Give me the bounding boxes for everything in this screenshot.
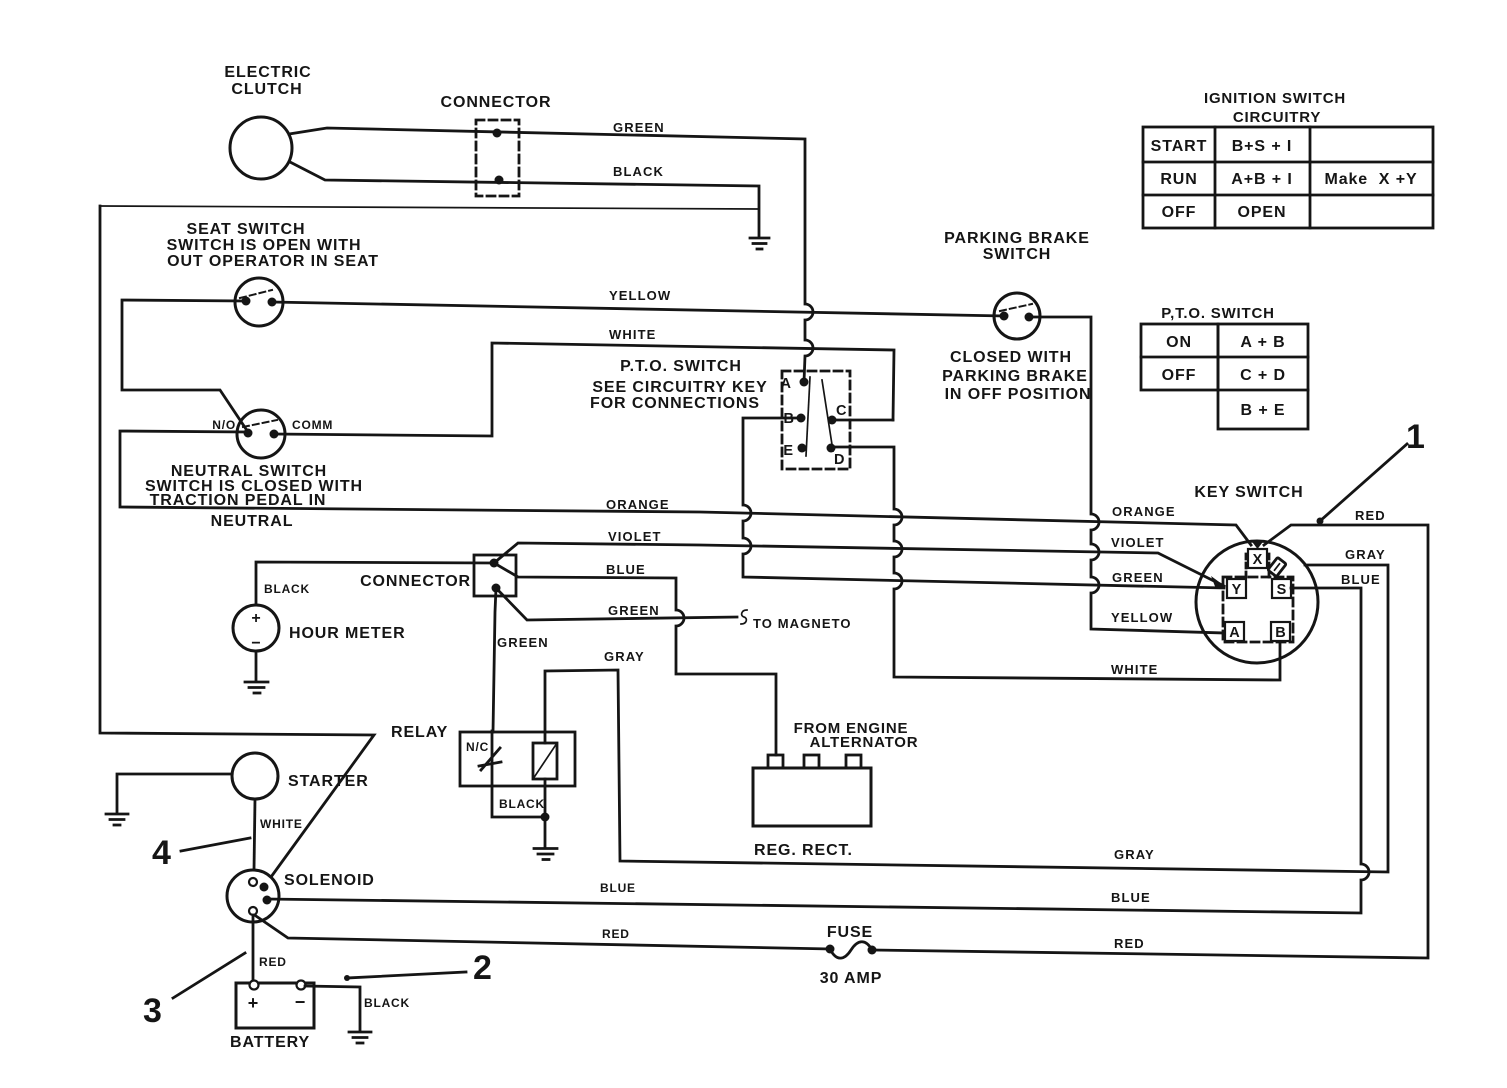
arrowhead above X xyxy=(1252,541,1264,549)
svg-text:ON: ON xyxy=(1166,334,1192,351)
fuse F1 30 AMP xyxy=(820,924,883,987)
ground (clutch black) xyxy=(750,238,769,249)
wire ORANGE from N/O of neutral switch to key switch X xyxy=(120,431,1251,545)
wire hour meter to connector xyxy=(256,562,494,605)
ground (relay) xyxy=(534,849,557,860)
starter xyxy=(232,753,369,799)
svg-text:3: 3 xyxy=(143,992,162,1030)
svg-text:+: + xyxy=(251,610,260,627)
svg-text:WHITE: WHITE xyxy=(609,327,656,342)
wire battery negative to ground xyxy=(305,986,360,1031)
svg-text:2: 2 xyxy=(473,949,492,987)
wire WHITE from COMM up and right to PTO C xyxy=(274,343,894,436)
svg-text:IGNITION SWITCH: IGNITION SWITCH xyxy=(1204,90,1346,107)
svg-text:N/O: N/O xyxy=(212,418,236,432)
connector (mid, solid) xyxy=(360,555,516,596)
svg-text:YELLOW: YELLOW xyxy=(609,288,671,303)
svg-text:COMM: COMM xyxy=(292,418,333,432)
hour meter xyxy=(233,582,406,652)
svg-text:CONNECTOR: CONNECTOR xyxy=(360,573,471,590)
svg-text:N/C: N/C xyxy=(466,740,489,754)
wire YELLOW parking brake down to key switch A xyxy=(1029,317,1225,633)
wire WHITE from PTO D to key switch B xyxy=(831,447,1280,680)
svg-text:BLUE: BLUE xyxy=(600,881,636,895)
callout 1 xyxy=(1317,418,1425,525)
wire YELLOW seat switch to parking brake xyxy=(272,302,1004,316)
svg-text:WHITE: WHITE xyxy=(260,817,303,831)
svg-text:A: A xyxy=(1229,625,1240,641)
svg-text:WHITE: WHITE xyxy=(1111,662,1158,677)
wire GREEN from clutch to connector and PTO terminal A xyxy=(289,128,813,382)
svg-text:RED: RED xyxy=(1355,508,1386,523)
svg-text:ORANGE: ORANGE xyxy=(606,497,670,512)
svg-text:RED: RED xyxy=(1114,936,1145,951)
callout 2 xyxy=(344,949,492,987)
ground (starter) xyxy=(106,814,128,825)
svg-text:P,T.O. SWITCH: P,T.O. SWITCH xyxy=(1161,305,1274,322)
svg-text:NEUTRAL: NEUTRAL xyxy=(211,513,294,530)
svg-text:C: C xyxy=(836,403,847,419)
svg-text:CIRCUITRY: CIRCUITRY xyxy=(1233,109,1321,126)
junction relay ground xyxy=(541,813,550,822)
svg-text:B: B xyxy=(784,411,794,427)
ground (battery) xyxy=(349,1032,371,1043)
wire WHITE starter to solenoid xyxy=(254,799,255,870)
wire relay to ground xyxy=(492,779,545,847)
svg-text:STARTER: STARTER xyxy=(288,773,369,790)
wire solenoid to battery xyxy=(252,915,255,983)
svg-text:−: − xyxy=(251,635,260,652)
svg-text:Make X +Y: Make X +Y xyxy=(1324,171,1417,188)
svg-text:A: A xyxy=(781,376,792,392)
ignition switch circuitry table xyxy=(1143,90,1433,228)
p.t.o. switch table xyxy=(1141,305,1308,429)
violet arrowhead at Y xyxy=(1211,576,1226,589)
svg-text:P.T.O. SWITCH: P.T.O. SWITCH xyxy=(620,358,742,375)
seat switch xyxy=(167,221,379,326)
solenoid xyxy=(227,870,375,922)
svg-text:VIOLET: VIOLET xyxy=(608,529,662,544)
svg-text:FOR CONNECTIONS: FOR CONNECTIONS xyxy=(590,395,760,412)
magneto break squiggle xyxy=(741,610,747,624)
svg-text:START: START xyxy=(1151,138,1208,155)
wire GREEN connector to magneto xyxy=(496,588,737,620)
electric clutch xyxy=(224,64,311,179)
reg. rect. (regulator rectifier) xyxy=(753,720,918,859)
svg-text:BLUE: BLUE xyxy=(606,562,646,577)
svg-text:BATTERY: BATTERY xyxy=(230,1034,310,1051)
svg-text:GREEN: GREEN xyxy=(608,603,660,618)
callout 4 xyxy=(152,834,250,872)
svg-text:KEY SWITCH: KEY SWITCH xyxy=(1194,484,1303,501)
svg-text:A+B + I: A+B + I xyxy=(1231,171,1292,188)
svg-text:PARKING BRAKE: PARKING BRAKE xyxy=(942,368,1088,385)
svg-text:ELECTRIC: ELECTRIC xyxy=(224,64,311,81)
connector (dashed, top) xyxy=(441,94,552,196)
relay xyxy=(391,724,575,786)
svg-text:OFF: OFF xyxy=(1162,204,1197,221)
svg-text:CONNECTOR: CONNECTOR xyxy=(441,94,552,111)
svg-text:BLUE: BLUE xyxy=(1111,890,1151,905)
svg-text:RED: RED xyxy=(259,955,287,969)
wire RED solenoid to fuse xyxy=(256,916,830,949)
wire RED key switch to fuse (right loop) xyxy=(874,525,1428,958)
svg-text:GREEN: GREEN xyxy=(613,120,665,135)
svg-text:BLACK: BLACK xyxy=(364,996,410,1010)
svg-text:VIOLET: VIOLET xyxy=(1111,535,1165,550)
svg-text:RELAY: RELAY xyxy=(391,724,448,741)
wire starter to ground xyxy=(117,774,232,813)
svg-text:1: 1 xyxy=(1406,418,1425,456)
svg-text:ALTERNATOR: ALTERNATOR xyxy=(810,734,919,751)
wire PTO C stub xyxy=(832,419,893,422)
svg-text:A + B: A + B xyxy=(1240,334,1285,351)
svg-text:OUT OPERATOR IN SEAT: OUT OPERATOR IN SEAT xyxy=(167,253,379,270)
svg-text:ORANGE: ORANGE xyxy=(1112,504,1176,519)
wire GRAY relay coil to key switch (long run) xyxy=(545,565,1388,872)
svg-text:X: X xyxy=(1253,552,1263,568)
svg-text:CLUTCH: CLUTCH xyxy=(231,81,302,98)
wire GREEN connector down to relay N/C xyxy=(493,588,496,732)
P.T.O. switch (dashed box) xyxy=(590,358,850,469)
svg-text:D: D xyxy=(834,452,844,468)
svg-text:BLACK: BLACK xyxy=(499,797,545,811)
svg-text:RUN: RUN xyxy=(1160,171,1197,188)
wire BLACK from clutch to ground xyxy=(290,162,759,237)
svg-text:TO MAGNETO: TO MAGNETO xyxy=(753,616,852,631)
key switch xyxy=(1194,484,1318,663)
neutral switch xyxy=(145,410,363,530)
svg-text:SEE CIRCUITRY KEY: SEE CIRCUITRY KEY xyxy=(592,379,767,396)
svg-text:RED: RED xyxy=(602,927,630,941)
key glyph xyxy=(1268,557,1287,576)
svg-text:S: S xyxy=(1277,582,1287,598)
svg-text:CLOSED WITH: CLOSED WITH xyxy=(950,349,1072,366)
svg-text:30 AMP: 30 AMP xyxy=(820,970,883,987)
svg-text:SWITCH: SWITCH xyxy=(983,246,1052,263)
ground (hour meter) xyxy=(245,651,268,693)
svg-text:SEAT SWITCH: SEAT SWITCH xyxy=(187,221,306,238)
wire VIOLET connector to key switch Y xyxy=(494,543,1224,586)
svg-text:Y: Y xyxy=(1232,582,1242,598)
svg-text:HOUR METER: HOUR METER xyxy=(289,625,406,642)
battery xyxy=(230,981,314,1052)
callout 3 xyxy=(143,953,245,1030)
wire from PTO B left and down to GREEN row xyxy=(743,418,1224,588)
parking brake switch xyxy=(942,230,1091,403)
svg-text:GRAY: GRAY xyxy=(1345,547,1386,562)
svg-text:SWITCH IS OPEN WITH: SWITCH IS OPEN WITH xyxy=(167,237,362,254)
wire BLUE connector to REG.RECT. xyxy=(494,563,776,755)
svg-text:OPEN: OPEN xyxy=(1238,204,1287,221)
svg-text:IN OFF POSITION: IN OFF POSITION xyxy=(945,386,1092,403)
wire chassis left box to solenoid xyxy=(100,206,374,877)
svg-text:GRAY: GRAY xyxy=(604,649,645,664)
svg-text:GREEN: GREEN xyxy=(1112,570,1164,585)
svg-text:B + E: B + E xyxy=(1241,402,1286,419)
svg-text:E: E xyxy=(783,443,793,459)
svg-text:OFF: OFF xyxy=(1162,367,1197,384)
svg-text:+: + xyxy=(248,993,259,1013)
svg-text:4: 4 xyxy=(152,834,171,872)
svg-text:B+S + I: B+S + I xyxy=(1232,138,1293,155)
svg-text:GRAY: GRAY xyxy=(1114,847,1155,862)
svg-text:REG. RECT.: REG. RECT. xyxy=(754,842,853,859)
svg-text:BLUE: BLUE xyxy=(1341,572,1381,587)
svg-text:BLACK: BLACK xyxy=(613,164,664,179)
svg-text:PARKING BRAKE: PARKING BRAKE xyxy=(944,230,1090,247)
wire chassis top thin line xyxy=(100,206,758,209)
svg-text:YELLOW: YELLOW xyxy=(1111,610,1173,625)
svg-text:B: B xyxy=(1275,625,1285,641)
svg-text:C + D: C + D xyxy=(1240,367,1286,384)
svg-text:−: − xyxy=(295,992,306,1012)
svg-text:SOLENOID: SOLENOID xyxy=(284,872,375,889)
svg-text:FUSE: FUSE xyxy=(827,924,873,941)
svg-text:BLACK: BLACK xyxy=(264,582,310,596)
svg-text:GREEN: GREEN xyxy=(497,635,549,650)
wire BLUE key switch S to solenoid xyxy=(267,588,1369,913)
wire seat switch to neutral switch N/O xyxy=(122,300,248,432)
